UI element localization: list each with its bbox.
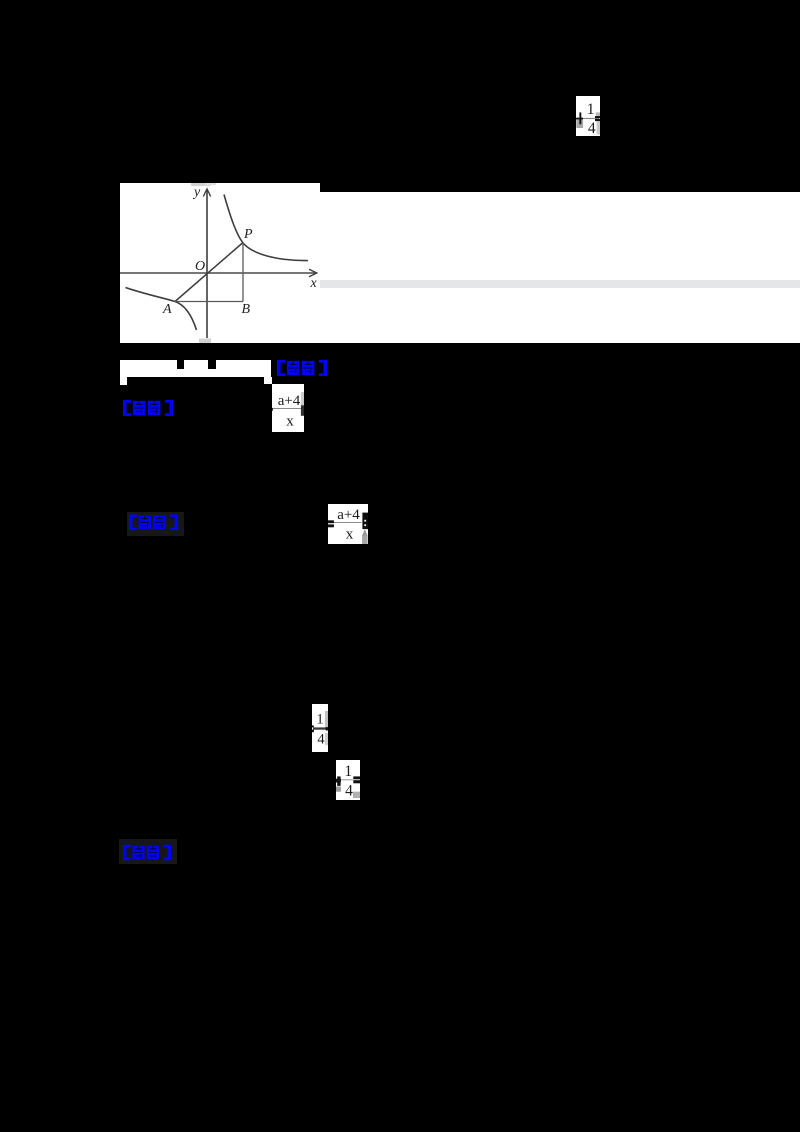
- graph figure white box: [120, 183, 320, 343]
- svg-text:x: x: [346, 527, 354, 543]
- svg-text:4: 4: [588, 120, 596, 136]
- svg-text:x: x: [310, 276, 318, 291]
- svg-text:1: 1: [344, 763, 352, 780]
- blue label 3: [127, 512, 184, 536]
- blue label 1: [276, 360, 328, 376]
- blue label 2: [121, 400, 175, 416]
- svg-text:A: A: [162, 302, 172, 317]
- svg-text:4: 4: [345, 783, 353, 800]
- svg-text:x: x: [286, 413, 294, 429]
- svg-text:a+4: a+4: [337, 507, 360, 523]
- svg-text:1: 1: [587, 101, 595, 118]
- hyperbola branch upper right: [224, 195, 308, 261]
- grey smudge top: [191, 183, 211, 186]
- svg-text:a+4: a+4: [278, 393, 301, 409]
- formula image: fraction -1/4 (top right): [576, 96, 600, 136]
- svg-text:1: 1: [316, 712, 323, 728]
- x-axis: [120, 272, 316, 274]
- grey smudge bottom: [199, 339, 211, 344]
- line A-O-P: [175, 243, 243, 302]
- svg-text:y: y: [192, 185, 201, 200]
- formula image: +1/4=: [336, 760, 360, 800]
- segment A-B: [175, 301, 243, 303]
- svg-text:4: 4: [317, 732, 325, 748]
- svg-text:P: P: [243, 227, 253, 242]
- grey strip: [320, 280, 800, 288]
- svg-text:B: B: [242, 302, 251, 317]
- y-axis: [206, 189, 208, 338]
- white highlight bar: [120, 360, 271, 377]
- hyperbola branch lower left: [126, 288, 197, 331]
- segment P-B: [242, 243, 244, 302]
- formula image: tall 1/4: [312, 704, 328, 752]
- right white band: [320, 192, 800, 343]
- blue label 4: [119, 839, 177, 864]
- svg-text:O: O: [195, 259, 205, 274]
- formula image: =(a+4)/x,: [328, 504, 368, 544]
- formula image: (a+4)/x: [272, 384, 304, 433]
